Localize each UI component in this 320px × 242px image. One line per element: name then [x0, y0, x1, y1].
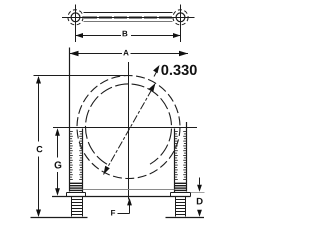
dimension A right arrowhead: [179, 51, 188, 57]
leader line to 0.330: [154, 70, 158, 77]
diagonal upper arrowhead: [149, 83, 156, 92]
top view: right bolt hole dashed outer circle: [173, 10, 188, 25]
diagonal lower arrowhead: [104, 166, 110, 175]
front view: outer dashed circle (u-bolt): [77, 76, 180, 179]
dimension C line: [38, 77, 40, 142]
front view: vertical centerline: [128, 62, 130, 200]
right nut: [171, 192, 191, 194]
dimension A left arrowhead: [70, 51, 79, 57]
left leg lower thread band: [70, 183, 82, 190]
dimension C bottom arrowhead: [36, 210, 41, 218]
dimension D top arrow line: [199, 178, 201, 185]
dimension G line: [57, 130, 59, 158]
label F: [111, 210, 115, 216]
right threaded stub: [175, 197, 177, 217]
label B: [123, 31, 128, 37]
dimension G top arrowhead: [55, 128, 60, 136]
top view: heavy bar centerline: [84, 17, 172, 19]
left nut: [67, 192, 86, 194]
saddle top line: [83, 189, 175, 191]
rod diameter diagonal dimension line: [104, 83, 156, 175]
dimension B line: [76, 35, 122, 37]
front view: inner dashed arc (u-bolt inner edge): [86, 84, 172, 164]
leader arrowhead at 0.330: [153, 65, 159, 73]
top view: right bolt hole circle: [176, 13, 185, 22]
left leg thread ticks: [70, 132, 82, 180]
dimension F leader: [118, 213, 130, 215]
top view: bar bottom edge: [84, 21, 173, 23]
dimension A line: [70, 53, 123, 55]
left threaded stub: [71, 197, 73, 217]
right leg lower thread band: [175, 183, 186, 190]
top view: horizontal centerline: [62, 17, 195, 19]
left leg outer edge / A extension: [69, 48, 71, 192]
top view: left vertical centerline / B extension: [75, 5, 77, 43]
top view: bar top edge: [84, 12, 173, 14]
top view: right vertical centerline / B extension: [180, 5, 182, 43]
right leg thread ticks: [175, 132, 186, 180]
dimension B right arrowhead: [173, 33, 181, 38]
label G: [55, 161, 62, 168]
dimension F arrowhead: [127, 198, 132, 206]
right nut top extension toward D: [191, 192, 205, 194]
label A: [123, 50, 128, 56]
top view: left bolt hole dashed outer circle: [68, 10, 83, 25]
dimension D bottom arrowhead: [197, 210, 202, 217]
right leg outer edge / A extension: [186, 122, 188, 192]
dimension D top arrowhead: [197, 185, 202, 192]
dimension C top extension line: [34, 75, 129, 77]
dimension C top arrowhead: [36, 76, 41, 84]
dimension G bottom arrowhead: [55, 188, 60, 196]
dimension B left arrowhead: [76, 33, 84, 38]
bottom baseline right: [166, 217, 205, 219]
saddle bottom line / G extension: [52, 196, 191, 198]
label 0.330: [161, 65, 196, 75]
right leg inner edge: [174, 129, 176, 193]
bottom baseline left: [31, 217, 88, 219]
label D: [197, 198, 203, 205]
left leg inner edge: [82, 129, 84, 193]
front view: horizontal centerline: [53, 127, 197, 129]
top view: left bolt hole circle: [71, 13, 80, 22]
label C: [37, 146, 43, 152]
